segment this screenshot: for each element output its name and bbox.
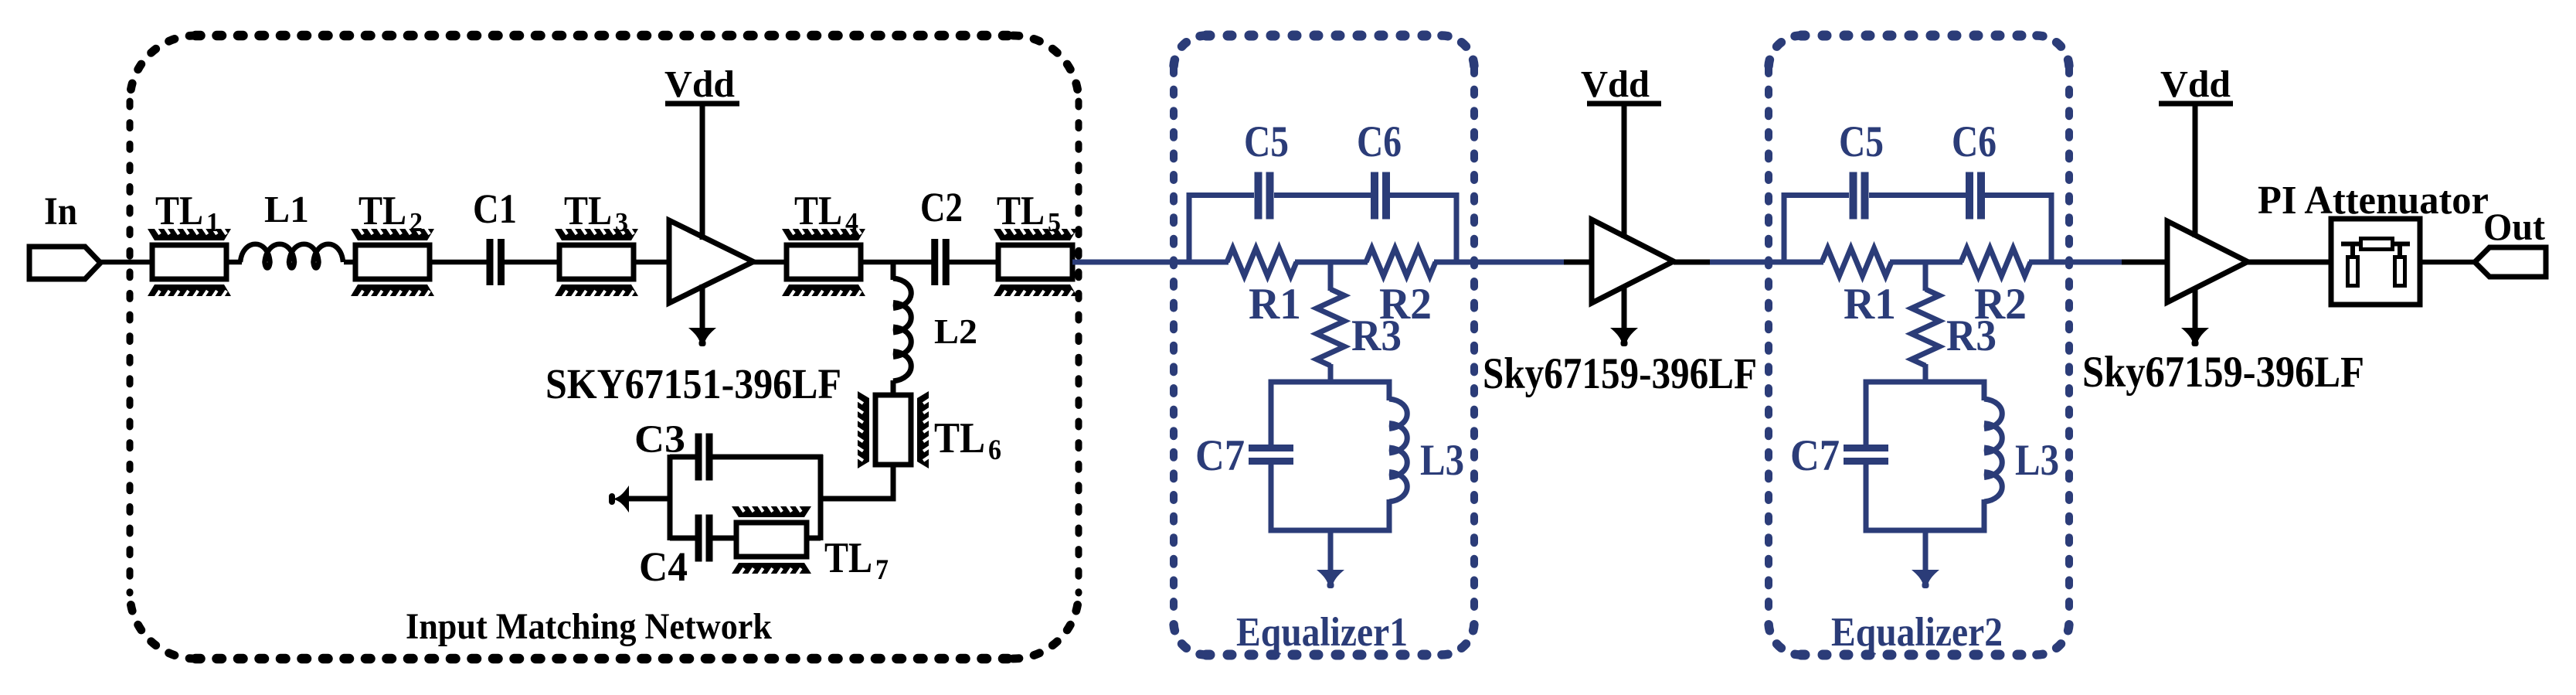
svg-text:7: 7 xyxy=(875,554,889,586)
wire tank top Equalizer1 xyxy=(1271,382,1389,445)
wire top branch Equalizer1 xyxy=(1187,192,1254,198)
wire top branch to C3 xyxy=(670,455,696,460)
svg-text:C3: C3 xyxy=(634,418,685,462)
ground Equalizer2 xyxy=(1912,570,1939,584)
svg-text:Sky67159-396LF: Sky67159-396LF xyxy=(2082,348,2364,397)
svg-text:2: 2 xyxy=(410,207,423,237)
wire into U3 (black stub) xyxy=(2122,260,2169,265)
svg-text:Sky67159-396LF: Sky67159-396LF xyxy=(1483,349,1757,398)
op-amp U1 SKY67151-396LF xyxy=(669,220,753,303)
inductor L3 Equalizer1 xyxy=(1389,399,1407,502)
ground U3 xyxy=(2181,328,2209,342)
svg-text:C5: C5 xyxy=(1244,118,1289,166)
svg-text:Equalizer2: Equalizer2 xyxy=(1831,610,2003,655)
wire right bus C3 C4 xyxy=(818,455,824,540)
svg-text:C6: C6 xyxy=(1357,118,1402,166)
svg-text:3: 3 xyxy=(615,207,628,237)
svg-text:C4: C4 xyxy=(639,543,688,590)
wire L1 to TL2 xyxy=(344,260,356,265)
capacitor C4 xyxy=(695,515,702,562)
wire tank bottom Equalizer2 xyxy=(1866,465,1984,530)
wire Vdd to U2 xyxy=(1622,104,1627,238)
wire U2 output (black stub) xyxy=(1674,260,1711,265)
wire R2 to U2 xyxy=(1434,260,1566,265)
wire U3 to ground xyxy=(2193,287,2198,329)
wire left riser C5 branch Equalizer1 xyxy=(1187,192,1192,262)
wire L2 to TL6 xyxy=(891,380,896,396)
transmission line TL4 xyxy=(782,227,865,298)
resistor R2 Equalizer2 xyxy=(1961,248,2031,276)
svg-text:C7: C7 xyxy=(1790,431,1840,480)
resistor R1 Equalizer1 xyxy=(1227,248,1296,276)
op-amp U2 Sky67159-396LF xyxy=(1592,220,1674,303)
capacitor C7 Equalizer2 xyxy=(1844,445,1888,451)
svg-text:SKY67151-396LF: SKY67151-396LF xyxy=(545,360,841,407)
wire R1 to R2 with node C xyxy=(1295,260,1368,265)
wire Vdd to U1 xyxy=(700,104,705,240)
inductor L2 xyxy=(893,278,911,381)
wire U1 to ground xyxy=(700,284,705,329)
wire In to TL1 xyxy=(100,260,152,265)
svg-text:L3: L3 xyxy=(1420,436,1464,485)
PI attenuator block xyxy=(2331,219,2420,305)
svg-text:4: 4 xyxy=(845,207,858,237)
transmission line TL7 xyxy=(732,505,811,575)
svg-text:Equalizer1: Equalizer1 xyxy=(1236,610,1408,655)
wire TL6 to node B xyxy=(821,465,893,499)
wire tank bottom Equalizer1 xyxy=(1271,465,1389,530)
svg-text:L3: L3 xyxy=(2015,436,2059,485)
svg-text:R3: R3 xyxy=(1351,312,1402,360)
wire TL2 to C1 xyxy=(430,260,488,265)
wire tank to ground Equalizer2 xyxy=(1923,530,1929,571)
svg-text:1: 1 xyxy=(206,207,219,237)
svg-text:C5: C5 xyxy=(1839,118,1884,166)
wire top branch Equalizer2 xyxy=(1782,192,1849,198)
capacitor C2 xyxy=(931,239,938,285)
wire node C to R3 Equalizer1 xyxy=(1328,262,1334,291)
transmission line TL1 xyxy=(148,227,231,298)
wire node C to R3 Equalizer2 xyxy=(1923,262,1929,291)
capacitor C6 Equalizer2 xyxy=(1966,172,1973,220)
resistor R3 Equalizer1 xyxy=(1317,289,1344,366)
svg-text:TL: TL xyxy=(997,189,1045,233)
port Out xyxy=(2475,247,2546,277)
svg-text:R1: R1 xyxy=(1249,280,1301,329)
svg-text:L1: L1 xyxy=(264,188,309,230)
wire node A to L2 xyxy=(891,262,896,280)
capacitor C1 xyxy=(487,239,494,285)
transmission line TL2 xyxy=(351,227,434,298)
svg-text:TL: TL xyxy=(564,189,612,233)
wire right riser C6 branch Equalizer1 xyxy=(1454,192,1460,262)
input matching network dashed box xyxy=(195,31,1013,41)
Equalizer2 dashed box xyxy=(1801,31,2037,41)
svg-text:PI Attenuator: PI Attenuator xyxy=(2258,179,2489,223)
transmission line TL5 xyxy=(994,227,1077,298)
svg-text:Vdd: Vdd xyxy=(664,63,735,105)
capacitor C6 Equalizer1 xyxy=(1371,172,1378,220)
op-amp U3 Sky67159-396LF xyxy=(2167,221,2248,302)
svg-text:Input Matching Network: Input Matching Network xyxy=(406,606,772,647)
svg-text:R3: R3 xyxy=(1946,312,1997,360)
wire left riser C5 branch Equalizer2 xyxy=(1782,192,1787,262)
svg-text:Out: Out xyxy=(2483,205,2545,248)
transmission line TL6 vertical xyxy=(856,391,930,468)
svg-text:L2: L2 xyxy=(934,312,977,351)
wire C1 to TL3 xyxy=(503,260,560,265)
svg-text:TL: TL xyxy=(824,534,872,582)
svg-text:Vdd: Vdd xyxy=(1581,63,1650,105)
wire TL1 to L1 xyxy=(226,260,242,265)
resistor R2 Equalizer1 xyxy=(1366,248,1436,276)
wire R3 to tank Equalizer2 xyxy=(1923,364,1929,384)
wire TL5 to R1 (blue line) xyxy=(1072,260,1229,265)
wire R3 to tank Equalizer1 xyxy=(1328,364,1334,384)
wire right riser C6 branch Equalizer2 xyxy=(2049,192,2054,262)
wire U1 to TL4 xyxy=(753,260,787,265)
svg-text:TL: TL xyxy=(359,189,406,233)
svg-text:R1: R1 xyxy=(1844,280,1896,329)
wire left bus C3 C4 xyxy=(668,455,673,540)
svg-text:TL: TL xyxy=(155,189,203,233)
svg-text:In: In xyxy=(44,190,77,233)
wire into U2 (black stub) xyxy=(1564,260,1593,265)
resistor R1 Equalizer2 xyxy=(1822,248,1891,276)
svg-text:C1: C1 xyxy=(473,186,517,232)
svg-text:TL: TL xyxy=(794,189,842,233)
ground Equalizer1 xyxy=(1317,570,1344,584)
svg-text:TL: TL xyxy=(934,414,985,462)
wire attenuator to Out xyxy=(2420,260,2476,265)
svg-text:Vdd: Vdd xyxy=(2160,63,2231,105)
wire TL3 to U1 xyxy=(634,260,670,265)
wire U3 to attenuator xyxy=(2248,260,2332,265)
capacitor C5 Equalizer2 xyxy=(1850,172,1857,220)
wire R2 equalizer2 to U3 xyxy=(2029,260,2123,265)
svg-text:C2: C2 xyxy=(920,184,963,230)
svg-text:6: 6 xyxy=(988,434,1001,466)
svg-text:C7: C7 xyxy=(1195,431,1245,480)
Equalizer1 dashed box xyxy=(1206,31,1442,41)
inductor L1 xyxy=(240,244,343,268)
wire R1 to R2 equalizer2 xyxy=(1890,260,1963,265)
capacitor C7 Equalizer1 xyxy=(1249,445,1293,451)
wire U2 to ground xyxy=(1622,285,1627,329)
wire TL4 to C2 via node A xyxy=(861,260,934,265)
ground U1 xyxy=(688,328,716,342)
capacitor C5 Equalizer1 xyxy=(1255,172,1263,220)
capacitor C3 xyxy=(695,434,702,481)
wire U2 to equalizer2 (blue line) xyxy=(1710,260,1823,265)
terminal arrow at C3 C4 node xyxy=(615,485,629,513)
wire node B stub to terminal xyxy=(627,496,672,502)
wire tank top Equalizer2 xyxy=(1866,382,1984,445)
svg-text:5: 5 xyxy=(1048,207,1061,237)
resistor R3 Equalizer2 xyxy=(1912,289,1939,366)
svg-text:C6: C6 xyxy=(1952,118,1997,166)
ground U2 xyxy=(1610,328,1638,342)
wire bottom branch C4 to TL7 xyxy=(670,536,696,541)
wire C2 to TL5 xyxy=(947,260,1000,265)
port In xyxy=(29,247,100,279)
transmission line TL3 xyxy=(555,227,638,298)
wire Vdd to U3 xyxy=(2193,104,2198,237)
inductor L3 Equalizer2 xyxy=(1984,399,2002,502)
wire tank to ground Equalizer1 xyxy=(1328,530,1334,571)
